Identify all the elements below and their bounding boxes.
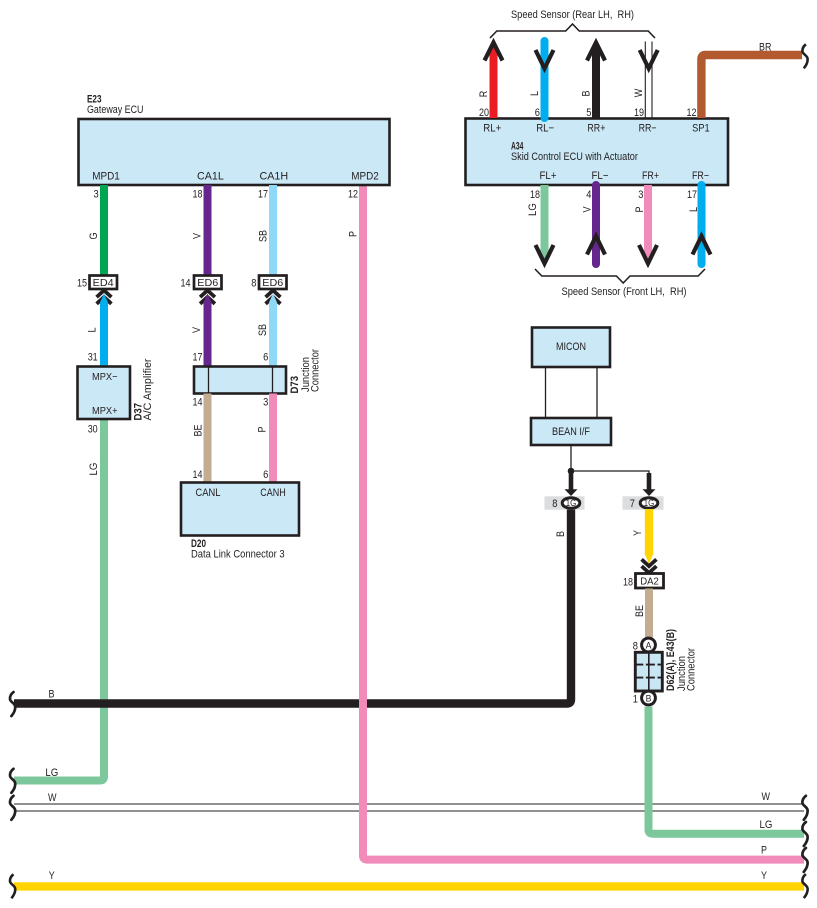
block BEAN I/F xyxy=(531,418,611,445)
chevron pair ED6 right xyxy=(266,290,281,304)
svg-text:Data Link Connector 3: Data Link Connector 3 xyxy=(191,549,285,561)
break symbol right W xyxy=(802,796,807,820)
svg-text:6: 6 xyxy=(263,469,268,481)
wire P MPD2 (E23 pin 12 to right edge) xyxy=(363,185,804,860)
svg-text:Y: Y xyxy=(49,870,55,882)
svg-text:Connector: Connector xyxy=(310,349,322,392)
svg-text:6: 6 xyxy=(535,107,540,119)
svg-text:MPD1: MPD1 xyxy=(92,171,120,183)
svg-text:ED4: ED4 xyxy=(93,278,114,289)
junction connector D73 xyxy=(194,367,286,394)
svg-text:Y: Y xyxy=(632,530,644,536)
amplifier D37 MPX box xyxy=(78,367,131,420)
svg-text:RL−: RL− xyxy=(536,123,554,135)
wire G (E23 pin 3 to ED4) xyxy=(100,185,108,277)
svg-text:BR: BR xyxy=(759,41,771,53)
wire R arrow up (RL+) xyxy=(485,43,503,119)
svg-text:12: 12 xyxy=(687,107,697,119)
wire P arrow down (FR+) xyxy=(639,185,657,264)
svg-text:ED6: ED6 xyxy=(197,278,218,289)
svg-text:Connector: Connector xyxy=(686,648,698,691)
svg-text:MPX−: MPX− xyxy=(92,372,118,383)
svg-text:V: V xyxy=(191,327,203,333)
svg-text:SB: SB xyxy=(257,324,269,336)
break symbol left LG xyxy=(10,769,15,793)
svg-text:RL+: RL+ xyxy=(483,123,501,135)
svg-text:20: 20 xyxy=(479,107,489,119)
connector ED6 pin 14 xyxy=(181,276,222,290)
svg-text:5: 5 xyxy=(586,107,591,119)
wire BEAN stem xyxy=(570,445,572,471)
svg-text:17: 17 xyxy=(258,189,268,201)
svg-text:V: V xyxy=(582,206,594,212)
svg-text:Gateway ECU: Gateway ECU xyxy=(87,104,144,116)
svg-text:30: 30 xyxy=(88,424,98,436)
svg-text:3: 3 xyxy=(263,397,268,409)
connector DA2 pin 18 xyxy=(623,574,664,589)
svg-text:BE: BE xyxy=(634,605,646,617)
svg-text:B: B xyxy=(49,689,55,701)
wire branch to right 1G xyxy=(571,471,649,481)
svg-text:LG: LG xyxy=(88,463,100,476)
ECU E23 box xyxy=(79,94,390,186)
wire MICON-BEAN left xyxy=(545,367,547,418)
svg-text:17: 17 xyxy=(193,352,203,364)
svg-text:15: 15 xyxy=(77,277,87,289)
svg-text:B: B xyxy=(581,91,593,97)
svg-text:18: 18 xyxy=(623,577,633,589)
svg-text:L: L xyxy=(529,91,541,96)
svg-text:LG: LG xyxy=(45,767,58,779)
svg-text:18: 18 xyxy=(530,189,540,201)
svg-text:3: 3 xyxy=(94,189,99,201)
svg-text:B: B xyxy=(646,694,652,705)
break symbol left Y xyxy=(10,874,15,898)
wire L arrow down (RL-) xyxy=(536,41,554,118)
svg-text:14: 14 xyxy=(181,277,191,289)
wire MICON-BEAN right xyxy=(596,367,598,418)
arrow into 1G left xyxy=(565,471,578,496)
svg-text:A: A xyxy=(646,641,652,652)
svg-text:MPD2: MPD2 xyxy=(351,171,379,183)
wire LG right (junction B to right edge) xyxy=(649,707,805,834)
wire SB (E23 pin 17 to ED6) xyxy=(269,185,277,277)
connector ED4 pin 15 xyxy=(77,276,117,290)
wire P (D73 to D20 pin 6) xyxy=(269,394,277,483)
svg-text:1: 1 xyxy=(633,694,638,706)
svg-text:P: P xyxy=(257,427,269,433)
wire V arrow up (FL-) xyxy=(587,185,605,264)
svg-text:FL−: FL− xyxy=(592,170,609,182)
svg-text:BE: BE xyxy=(193,425,205,437)
connector 1G pin 8 xyxy=(545,496,585,510)
break symbol right Y xyxy=(802,874,807,898)
arrow into 1G right xyxy=(643,473,656,496)
svg-text:14: 14 xyxy=(193,469,203,481)
svg-text:14: 14 xyxy=(193,397,203,409)
svg-text:31: 31 xyxy=(88,352,98,364)
break symbol right LG xyxy=(802,822,807,846)
break symbol left B xyxy=(10,692,15,716)
svg-text:1G: 1G xyxy=(566,498,577,508)
wire W arrow down (RR-) xyxy=(640,42,658,119)
break symbol left W xyxy=(10,796,15,820)
svg-text:18: 18 xyxy=(193,189,203,201)
svg-text:R: R xyxy=(478,91,490,98)
svg-text:8: 8 xyxy=(251,277,256,289)
wire BR (SP1 to right edge) xyxy=(701,55,802,118)
wire L (ED4 to MPX-) xyxy=(100,294,108,367)
svg-text:SB: SB xyxy=(258,230,270,242)
svg-text:LG: LG xyxy=(760,819,773,831)
wire L arrow up (FR-) xyxy=(693,185,711,264)
svg-text:7: 7 xyxy=(630,498,635,510)
svg-text:CA1H: CA1H xyxy=(259,171,288,183)
svg-text:W: W xyxy=(48,792,57,804)
node junction dot xyxy=(568,468,575,475)
wire BE (DA2 to junction A) xyxy=(645,589,653,638)
svg-text:MICON: MICON xyxy=(556,341,586,353)
wire LG left (MPX+ pin 30 to left edge) xyxy=(14,419,104,781)
connector 1G pin 7 xyxy=(623,496,664,510)
wire Y horizontal bottom xyxy=(14,882,804,890)
svg-text:CANH: CANH xyxy=(260,487,286,499)
svg-text:19: 19 xyxy=(634,107,644,119)
svg-text:CANL: CANL xyxy=(196,487,221,499)
svg-text:CA1L: CA1L xyxy=(197,171,224,183)
svg-text:3: 3 xyxy=(638,189,643,201)
svg-text:4: 4 xyxy=(586,189,591,201)
svg-text:P: P xyxy=(761,844,767,856)
brace Speed Sensor Rear xyxy=(490,24,655,38)
connector ED6 pin 8 xyxy=(251,276,286,290)
wire W horizontal (white wire, double line) xyxy=(14,804,804,811)
wire SB (ED6 to D73 pin 6) xyxy=(269,294,277,367)
svg-text:W: W xyxy=(633,88,645,97)
svg-text:P: P xyxy=(348,231,360,237)
break symbol right P xyxy=(802,848,807,872)
wire V (ED6 to D73 pin 17) xyxy=(204,294,212,367)
chevron pair ED4 xyxy=(97,290,112,304)
svg-text:12: 12 xyxy=(348,189,358,201)
svg-text:Y: Y xyxy=(761,870,767,882)
svg-text:Skid Control ECU with Actuator: Skid Control ECU with Actuator xyxy=(511,151,638,163)
svg-text:FR−: FR− xyxy=(692,170,709,182)
brace Speed Sensor Front xyxy=(535,269,705,283)
svg-text:P: P xyxy=(634,207,646,213)
svg-text:L: L xyxy=(87,328,99,333)
wire BE (D73 to D20 pin 14) xyxy=(204,394,212,483)
svg-text:8: 8 xyxy=(552,498,557,510)
junction connector D62(A) E43(B) grid xyxy=(635,652,662,691)
svg-text:LG: LG xyxy=(527,203,539,216)
svg-text:ED6: ED6 xyxy=(262,278,283,289)
svg-text:MPX+: MPX+ xyxy=(92,406,118,417)
svg-text:B: B xyxy=(555,531,567,537)
wire Y (1G pin 7 to DA2) xyxy=(645,509,653,564)
wire V (E23 pin 18 to ED6) xyxy=(204,185,212,277)
ECU A34 box xyxy=(466,119,729,186)
wire B (1G pin 8 to left edge) xyxy=(14,509,571,704)
svg-text:6: 6 xyxy=(263,352,268,364)
svg-text:RR+: RR+ xyxy=(587,123,605,135)
svg-text:W: W xyxy=(762,791,771,803)
svg-text:V: V xyxy=(192,233,204,239)
break symbol right BR xyxy=(802,44,807,68)
svg-text:L: L xyxy=(688,207,700,212)
chevron pair ED6 left xyxy=(200,290,215,304)
svg-text:BEAN I/F: BEAN I/F xyxy=(552,426,590,438)
svg-text:DA2: DA2 xyxy=(640,577,659,588)
svg-text:FR+: FR+ xyxy=(642,170,659,182)
svg-text:FL+: FL+ xyxy=(540,170,557,182)
wire B arrow up (RR+) xyxy=(587,43,605,119)
svg-text:RR−: RR− xyxy=(639,123,657,135)
terminal B circle pin 1 xyxy=(633,691,656,705)
svg-text:A/C Amplifier: A/C Amplifier xyxy=(142,358,154,420)
svg-text:SP1: SP1 xyxy=(692,123,710,135)
connector D20 box xyxy=(181,483,299,536)
svg-text:1G: 1G xyxy=(644,498,655,508)
terminal A circle pin 8 xyxy=(633,638,656,652)
svg-text:Speed Sensor (Rear LH, RH): Speed Sensor (Rear LH, RH) xyxy=(511,9,634,21)
chevron pair DA2 xyxy=(642,559,657,573)
block MICON xyxy=(532,328,610,368)
svg-text:8: 8 xyxy=(633,641,638,653)
svg-text:G: G xyxy=(88,233,100,240)
wire LG arrow down (FL+) xyxy=(536,185,554,264)
svg-text:Speed Sensor (Front LH, RH): Speed Sensor (Front LH, RH) xyxy=(562,286,687,298)
svg-text:17: 17 xyxy=(687,189,697,201)
